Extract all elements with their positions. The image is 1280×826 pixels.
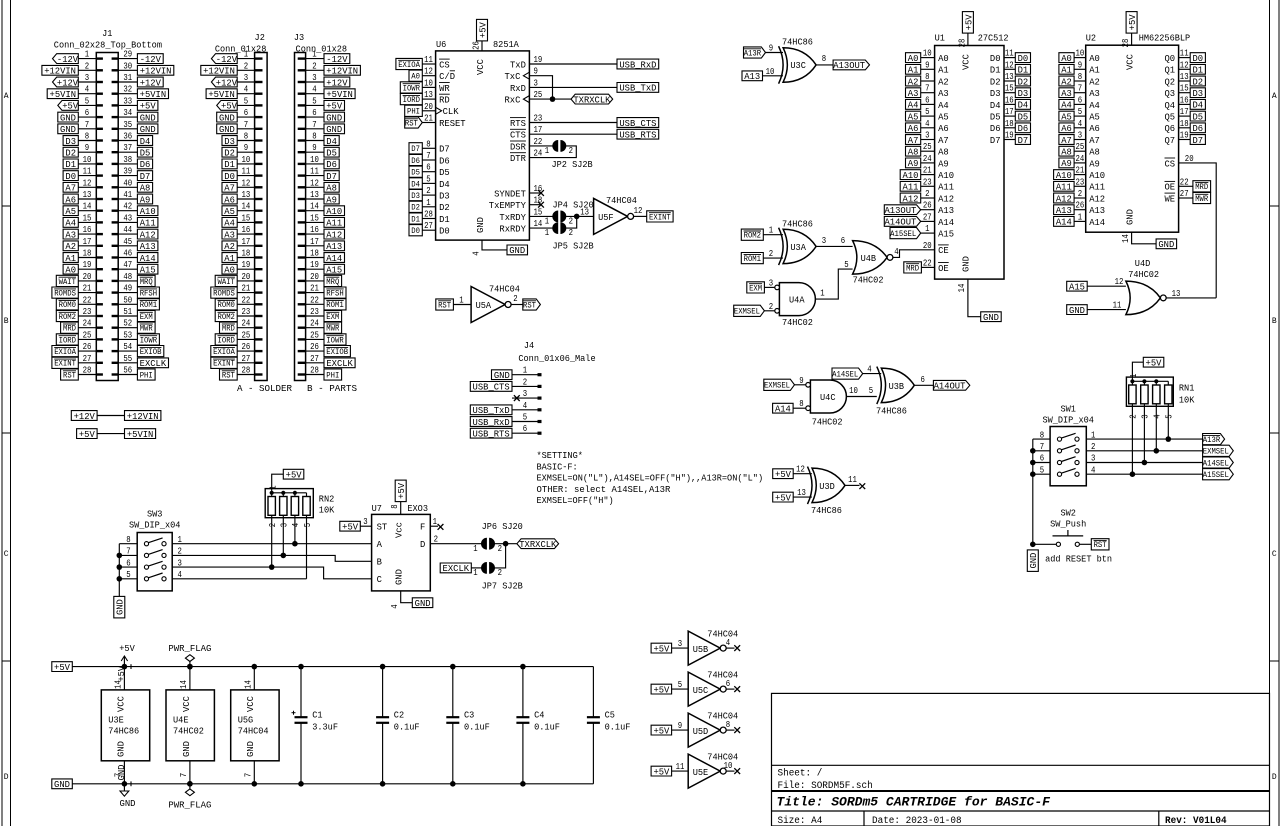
svg-text:A5: A5 — [938, 112, 949, 123]
svg-text:25: 25 — [83, 329, 92, 340]
net label TXRXCLK (JP6) — [517, 539, 559, 550]
U6 pin 6 D5 with net label D5 — [409, 162, 450, 178]
svg-text:C/D: C/D — [439, 71, 455, 82]
connector J1 Conn_02x28_Top_Bottom — [54, 28, 163, 380]
power symbol GND (rail) — [116, 764, 136, 809]
svg-text:A6: A6 — [908, 123, 919, 134]
wire +5V to +5VIN — [97, 433, 124, 435]
svg-text:2: 2 — [513, 293, 518, 304]
svg-text:6: 6 — [925, 94, 930, 105]
svg-text:U5C: U5C — [693, 685, 709, 696]
svg-text:D4: D4 — [140, 136, 151, 147]
svg-text:File: SORDM5F.sch: File: SORDM5F.sch — [778, 780, 873, 792]
junction SW1 bus (row3) — [1030, 460, 1036, 466]
net label RST (U5A output) — [523, 299, 541, 311]
net label EXM (J3 pin 23) — [324, 310, 342, 322]
wire RST to U5A — [453, 304, 471, 306]
net label A13OUT (U3C output) — [833, 60, 869, 71]
svg-text:A9: A9 — [326, 194, 337, 205]
svg-text:3: 3 — [279, 523, 290, 528]
svg-text:74HC02: 74HC02 — [173, 725, 204, 736]
svg-text:37: 37 — [123, 142, 132, 153]
svg-text:4: 4 — [290, 523, 301, 528]
resistor network RN1 10K — [1126, 377, 1194, 406]
wire A15 to U4D — [1087, 276, 1126, 287]
svg-text:CS: CS — [1165, 158, 1176, 169]
J3 pin wires and numbers — [306, 49, 324, 376]
svg-text:A9: A9 — [938, 158, 949, 169]
net label +12VIN (J1 pin 2) — [42, 65, 78, 76]
title block frame — [772, 693, 1270, 826]
svg-text:A2: A2 — [908, 76, 919, 87]
title block sheet text — [778, 768, 823, 780]
svg-text:10: 10 — [724, 760, 733, 771]
svg-text:8: 8 — [1078, 71, 1083, 82]
svg-text:D6: D6 — [1018, 123, 1029, 134]
svg-text:28: 28 — [1120, 38, 1131, 47]
net label ROM1 (U3A input 2) — [741, 253, 763, 265]
svg-text:6: 6 — [726, 678, 731, 689]
svg-text:74HC02: 74HC02 — [853, 274, 884, 285]
NOR gate U4B 74HC02 — [853, 241, 893, 286]
wire EXMSEL to U4A — [764, 301, 774, 312]
svg-text:-12V: -12V — [57, 54, 78, 65]
net label +5VIN (J1 pin 32) — [137, 89, 168, 100]
svg-text:20: 20 — [424, 101, 433, 112]
net label A12 (J3 pin 16) — [324, 229, 345, 240]
svg-text:8: 8 — [1040, 429, 1045, 440]
svg-text:CS: CS — [439, 59, 450, 70]
wire A14 to U4C — [793, 398, 806, 409]
net label A9 (J3 pin 13) — [324, 194, 339, 205]
svg-text:9: 9 — [85, 142, 90, 153]
svg-text:SW_Push: SW_Push — [1050, 519, 1086, 530]
svg-text:Rev: V01L04: Rev: V01L04 — [1165, 816, 1227, 826]
power GND (U1) — [981, 312, 1002, 323]
svg-text:+12VIN: +12VIN — [326, 66, 358, 77]
svg-text:USB_TxD: USB_TxD — [619, 83, 656, 94]
svg-text:0.1uF: 0.1uF — [394, 722, 420, 733]
svg-text:ST: ST — [377, 522, 388, 533]
svg-text:15: 15 — [242, 212, 251, 223]
net label EXMSEL — [1203, 445, 1234, 457]
svg-text:4: 4 — [894, 246, 899, 257]
svg-text:8: 8 — [799, 398, 804, 409]
svg-text:7: 7 — [925, 83, 929, 94]
svg-text:WR: WR — [439, 83, 450, 94]
EPROM U1 27C512 body — [935, 33, 1009, 279]
U2 pin 15 Q3 with net label D3 — [1165, 83, 1206, 99]
net label +12V (J2 pin 3) — [211, 77, 237, 88]
svg-text:17: 17 — [83, 236, 92, 247]
svg-text:GND: GND — [1158, 239, 1174, 250]
svg-text:D1: D1 — [990, 65, 1001, 76]
svg-text:PWR_FLAG: PWR_FLAG — [168, 643, 211, 654]
svg-text:J4: J4 — [524, 340, 535, 351]
svg-text:5: 5 — [678, 679, 683, 690]
wire ROM2 to U3A — [763, 225, 783, 236]
net label A14 (J3 pin 18) — [324, 253, 345, 264]
U2 pin 13 Q2 with net label D2 — [1165, 71, 1206, 87]
IC power unit U3E 74HC86 — [101, 690, 149, 761]
svg-text:D5: D5 — [1193, 111, 1204, 122]
net label RST (U5A input) — [436, 299, 454, 311]
svg-text:RxC: RxC — [505, 95, 521, 106]
net label A13R (U3C input 9) — [744, 47, 766, 59]
SRAM U2 HM62256BLP body — [1086, 32, 1191, 232]
svg-text:2: 2 — [426, 185, 431, 196]
U2 pin 11 Q0 with net label D0 — [1165, 48, 1206, 64]
capacitor C2 0.1uF — [376, 667, 419, 784]
svg-text:26: 26 — [310, 341, 319, 352]
net label USB_RTS — [617, 129, 659, 140]
svg-text:8: 8 — [312, 131, 317, 142]
svg-text:D3: D3 — [1193, 88, 1204, 99]
svg-text:EXIOA: EXIOA — [54, 348, 76, 357]
net label +5VIN (J3 pin 4) — [324, 89, 355, 100]
svg-text:0.1uF: 0.1uF — [534, 722, 560, 733]
net label -12V (J2 pin 1) — [211, 54, 237, 65]
svg-text:24: 24 — [923, 153, 932, 164]
net label RST (J2 pin 28) — [220, 369, 238, 381]
svg-text:7: 7 — [1078, 83, 1082, 94]
svg-text:3.3uF: 3.3uF — [312, 722, 338, 733]
J2 pin wires and numbers — [237, 49, 254, 376]
svg-text:10: 10 — [923, 48, 932, 59]
junction RN1 pullup on A14SEL — [1142, 460, 1148, 466]
net label +5V (J1 pin 33) — [137, 101, 158, 112]
svg-text:A13: A13 — [938, 205, 954, 216]
svg-text:EXIOA: EXIOA — [213, 348, 235, 357]
U7 pin 1 F no-connect — [430, 516, 443, 530]
svg-text:A12: A12 — [140, 229, 156, 240]
solder jumper JP2 SJ2B — [545, 140, 593, 170]
svg-text:3: 3 — [85, 72, 90, 83]
svg-text:6: 6 — [841, 235, 846, 246]
U1 pin 19 D7 with net label D7 — [990, 130, 1031, 146]
svg-text:A7: A7 — [908, 135, 919, 146]
svg-text:Sheet: /: Sheet: / — [778, 768, 823, 780]
svg-text:39: 39 — [123, 166, 132, 177]
U1 pin 13 D2 with net label D2 — [990, 71, 1031, 87]
svg-text:A0: A0 — [1061, 53, 1072, 64]
net label +5V (U5E input) — [651, 766, 672, 777]
svg-text:10K: 10K — [319, 505, 335, 516]
connector J4 Conn_01x06_Male — [512, 340, 596, 434]
svg-text:+12VIN: +12VIN — [127, 411, 159, 422]
svg-text:SW1: SW1 — [1060, 404, 1076, 415]
svg-text:56: 56 — [123, 365, 132, 376]
U6 pin 28 D1 with net label D1 — [409, 209, 450, 225]
net label ROM1 (J1 pin 50) — [137, 299, 159, 311]
wire +5V to U7 Vcc — [389, 502, 401, 515]
net label +5V (J1 pin 5) — [58, 101, 79, 112]
svg-text:8: 8 — [389, 504, 400, 509]
U1 pin 20 CE from U4B — [923, 240, 949, 256]
svg-text:D7: D7 — [411, 145, 420, 154]
U2 pin 25 A8 with net label A8 — [1059, 141, 1100, 157]
svg-text:U3B: U3B — [889, 381, 905, 392]
svg-text:14: 14 — [310, 201, 319, 212]
svg-text:+12V: +12V — [216, 77, 237, 88]
SW1 right pin numbers — [1091, 429, 1096, 475]
U2 pin 5 A5 with net label A5 — [1059, 106, 1100, 122]
svg-text:EXINT: EXINT — [213, 360, 235, 369]
svg-text:25: 25 — [242, 329, 251, 340]
svg-text:43: 43 — [123, 212, 132, 223]
wire SW3 pin3 to U7 C — [172, 567, 371, 579]
svg-text:15: 15 — [83, 212, 92, 223]
net label MRD (J2 pin 24) — [220, 322, 238, 334]
svg-text:14: 14 — [178, 680, 189, 689]
svg-text:19: 19 — [83, 259, 92, 270]
svg-text:5: 5 — [312, 95, 317, 106]
svg-text:+5V: +5V — [775, 469, 791, 480]
net label +5V (power rail) — [52, 662, 73, 673]
net label A15 (J3 pin 19) — [324, 264, 345, 275]
svg-text:CLK: CLK — [443, 106, 459, 117]
svg-text:A: A — [377, 539, 383, 550]
svg-text:B: B — [4, 317, 9, 326]
svg-text:1: 1 — [312, 49, 317, 60]
junction C1 bottom — [298, 781, 304, 787]
power +5V (RN1) — [1143, 357, 1164, 368]
RN2 pin 1 wire to +5V — [268, 474, 284, 493]
svg-text:+12V: +12V — [74, 411, 95, 422]
svg-text:8: 8 — [126, 534, 131, 545]
connector J3 Conn_01x28 (parts side) — [294, 32, 347, 380]
svg-text:28: 28 — [956, 38, 967, 47]
svg-text:+5VIN: +5VIN — [208, 89, 235, 100]
inverter U5F 74HC04 — [580, 195, 642, 235]
svg-text:MRD: MRD — [222, 325, 235, 334]
svg-text:24: 24 — [1076, 153, 1085, 164]
svg-text:+12V: +12V — [326, 77, 347, 88]
wire +5V to U5B — [672, 647, 689, 649]
svg-text:GND: GND — [326, 112, 342, 123]
svg-text:A14OUT: A14OUT — [885, 217, 917, 228]
J4 pin 3 no-connect — [514, 395, 520, 401]
svg-text:2: 2 — [434, 534, 439, 545]
net label WAIT (J2 pin 20) — [215, 275, 237, 287]
svg-text:U6: U6 — [436, 39, 446, 50]
svg-text:A11: A11 — [1056, 182, 1072, 193]
net label GND (J1 pin 6) — [58, 112, 79, 123]
svg-text:OTHER: select A14SEL,A13R: OTHER: select A14SEL,A13R — [537, 484, 671, 495]
svg-text:DTR: DTR — [510, 153, 526, 164]
svg-text:C3: C3 — [464, 710, 474, 721]
svg-text:17: 17 — [310, 236, 319, 247]
wire RN1 pin3 down to A14SEL — [1143, 404, 1145, 463]
svg-text:RN2: RN2 — [319, 494, 335, 505]
net label EXINT — [647, 211, 673, 223]
net label MWR (J1 pin 52) — [137, 322, 155, 334]
svg-text:21: 21 — [1076, 165, 1085, 176]
svg-text:74HC86: 74HC86 — [782, 219, 813, 230]
svg-text:27: 27 — [242, 353, 251, 364]
wire EXCLK to JP7 — [471, 567, 481, 569]
svg-text:A14: A14 — [1056, 217, 1072, 228]
XOR gate U3B 74HC86 — [876, 367, 914, 417]
svg-text:A3: A3 — [1089, 88, 1100, 99]
svg-text:D2: D2 — [65, 148, 76, 159]
net label A11 (J1 pin 43) — [137, 218, 158, 229]
junction RN1 pullup on EXMSEL — [1154, 448, 1160, 454]
net label ROM1 (J3 pin 22) — [324, 299, 346, 311]
U1 pin 25 A8 with net label A8 — [906, 141, 949, 157]
svg-text:35: 35 — [123, 119, 132, 130]
svg-text:ROM0: ROM0 — [218, 301, 236, 310]
svg-text:6: 6 — [1040, 453, 1045, 464]
svg-text:16: 16 — [310, 224, 319, 235]
junction SW3 bus (row2) — [117, 553, 123, 559]
svg-text:A7: A7 — [65, 183, 76, 194]
svg-text:2: 2 — [1078, 188, 1083, 199]
svg-text:J3: J3 — [294, 32, 304, 43]
DIP switch SW1 SW_DIP_x04 body — [1042, 404, 1094, 486]
oscillator U7 EXO3 body — [372, 503, 431, 591]
junction TxC/RxC — [550, 96, 556, 102]
svg-text:25: 25 — [310, 329, 319, 340]
svg-text:2: 2 — [523, 376, 528, 387]
svg-text:+5V: +5V — [396, 483, 407, 499]
svg-text:8: 8 — [426, 138, 431, 149]
net label MRQ (J1 pin 48) — [137, 275, 155, 287]
svg-text:15: 15 — [534, 206, 543, 217]
svg-text:IOWR: IOWR — [326, 336, 344, 345]
net label USB_RxD — [617, 59, 659, 70]
svg-text:12: 12 — [1115, 276, 1124, 287]
net label +5V (U5D input) — [651, 725, 672, 736]
svg-text:TxEMPTY: TxEMPTY — [489, 200, 526, 211]
svg-text:D6: D6 — [439, 155, 450, 166]
svg-text:A - SOLDER: A - SOLDER — [237, 383, 292, 394]
connector J2 Conn_01x28 (solder side) — [215, 32, 267, 380]
junction U4E GND on GND rail — [187, 781, 193, 787]
svg-text:GND: GND — [494, 370, 510, 381]
title block title text — [777, 795, 1052, 810]
svg-text:A2: A2 — [1061, 76, 1072, 87]
svg-text:21: 21 — [242, 283, 251, 294]
NOR gate U4D 74HC02 — [1126, 258, 1166, 315]
svg-text:D7: D7 — [326, 171, 337, 182]
svg-text:RFSH: RFSH — [140, 290, 158, 299]
U1 pin 7 A3 with net label A3 — [906, 83, 949, 99]
net label +12VIN (J3 pin 2) — [324, 65, 360, 76]
svg-text:25: 25 — [923, 141, 932, 152]
svg-text:27: 27 — [923, 211, 932, 222]
svg-text:A11: A11 — [326, 218, 342, 229]
svg-text:A5: A5 — [224, 206, 235, 217]
svg-text:A9: A9 — [908, 158, 919, 169]
svg-text:0.1uF: 0.1uF — [605, 722, 631, 733]
net label EXIOA (J1 pin 26) — [52, 346, 78, 358]
U6 pin 14 RxRDY wire to JP5 — [499, 218, 553, 234]
svg-text:A11: A11 — [140, 218, 156, 229]
U6 pin 21 RESET with net label RST — [405, 113, 466, 129]
svg-text:23: 23 — [83, 306, 92, 317]
net label RFSH (J1 pin 49) — [137, 287, 159, 299]
net label A0 (J1 pin 19) — [63, 264, 78, 275]
svg-text:9: 9 — [678, 720, 683, 731]
svg-text:SW3: SW3 — [147, 509, 163, 520]
wire RN2 pin2 down — [271, 515, 273, 567]
U1 pin 8 A2 with net label A2 — [906, 71, 949, 87]
svg-text:21: 21 — [310, 283, 319, 294]
svg-text:+5V: +5V — [653, 643, 669, 654]
svg-text:4: 4 — [925, 118, 930, 129]
svg-text:19: 19 — [242, 259, 251, 270]
svg-text:A4: A4 — [1061, 100, 1072, 111]
net label A3 (J1 pin 16) — [63, 229, 78, 240]
svg-text:7: 7 — [242, 773, 253, 777]
net label EXINT (J1 pin 27) — [52, 357, 78, 369]
svg-text:21: 21 — [83, 283, 92, 294]
U2 pin 7 A3 with net label A3 — [1059, 83, 1100, 99]
svg-text:24: 24 — [242, 318, 251, 329]
svg-text:22: 22 — [83, 294, 92, 305]
svg-text:A14: A14 — [1089, 217, 1105, 228]
svg-text:8: 8 — [822, 53, 827, 64]
svg-text:A5: A5 — [65, 206, 76, 217]
net label A13 (J1 pin 45) — [137, 241, 158, 252]
svg-text:D6: D6 — [326, 159, 337, 170]
net label A13R — [1203, 434, 1225, 446]
net label IOWR (J1 pin 53) — [137, 334, 159, 346]
svg-text:MRD: MRD — [63, 325, 76, 334]
U6 pin 3 RxD wire to USB_TxD — [510, 77, 617, 93]
svg-text:A10: A10 — [1056, 170, 1072, 181]
svg-text:11: 11 — [424, 54, 433, 65]
svg-text:12: 12 — [242, 177, 251, 188]
svg-text:A2: A2 — [1089, 76, 1100, 87]
U1 pin 5 A5 with net label A5 — [906, 106, 949, 122]
svg-text:9: 9 — [925, 59, 930, 70]
svg-text:13: 13 — [424, 89, 433, 100]
svg-text:C1: C1 — [312, 710, 323, 721]
svg-text:11: 11 — [1005, 48, 1014, 59]
svg-text:7: 7 — [426, 150, 430, 161]
svg-text:23: 23 — [310, 306, 319, 317]
U6 pin 5 D4 with net label D4 — [409, 173, 450, 189]
svg-text:WAIT: WAIT — [218, 278, 236, 287]
svg-text:12: 12 — [1005, 59, 1014, 70]
U2 pin 4 A6 with net label A6 — [1059, 118, 1100, 134]
power GND (U7) — [412, 598, 433, 609]
U2 pin 16 Q4 with net label D4 — [1165, 94, 1206, 110]
svg-text:A4: A4 — [224, 218, 235, 229]
U1 pin 2 A12 with net label A12 — [900, 188, 954, 204]
svg-text:17: 17 — [534, 124, 543, 135]
U1 pin 4 A6 with net label A6 — [906, 118, 949, 134]
svg-text:11: 11 — [83, 166, 92, 177]
U1 pin 11 D0 with net label D0 — [990, 48, 1031, 64]
svg-text:4: 4 — [244, 84, 249, 95]
U1 pin 3 A7 with net label A7 — [906, 130, 949, 146]
svg-text:PHI: PHI — [326, 371, 339, 380]
svg-text:D0: D0 — [990, 53, 1001, 64]
svg-text:ROM2: ROM2 — [218, 313, 236, 322]
net label +5VIN (J2 pin 4) — [206, 89, 237, 100]
junction U5G GND on GND rail — [252, 781, 258, 787]
svg-text:Q2: Q2 — [1165, 76, 1176, 87]
svg-text:4: 4 — [867, 364, 872, 375]
svg-text:47: 47 — [123, 259, 132, 270]
svg-text:Q1: Q1 — [1165, 65, 1176, 76]
svg-text:EXM: EXM — [140, 313, 153, 322]
junction PWR_FLAG GND — [187, 781, 193, 787]
svg-text:A10: A10 — [326, 206, 342, 217]
